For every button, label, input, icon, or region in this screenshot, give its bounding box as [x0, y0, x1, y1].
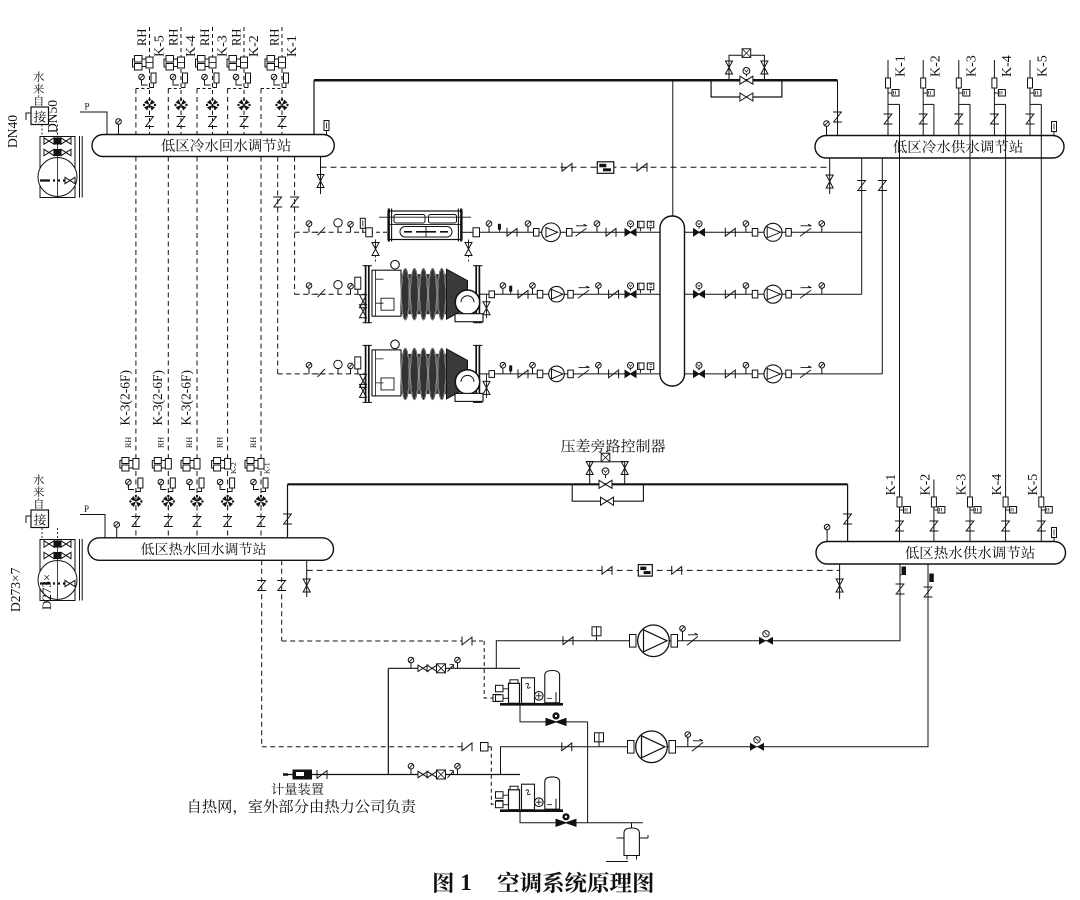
chiller bellows: [402, 274, 447, 314]
hot return header 低区热水回水调节站: [88, 538, 334, 561]
skid base: [500, 703, 563, 706]
secondary pump: [764, 365, 782, 383]
sensor box K-5: [1030, 92, 1034, 94]
svg-text:K-4: K-4: [990, 474, 1005, 496]
chiller left stub valves: [360, 374, 367, 387]
svg-text:RH: RH: [185, 437, 194, 448]
controller actuator M chilled: [743, 68, 750, 75]
label 自来水 vertical bottom: [35, 498, 42, 509]
feed gauge: [306, 362, 312, 371]
wire skid A bypass: [520, 704, 588, 722]
gauge: [596, 362, 602, 371]
tank side plate: [79, 539, 81, 601]
primary pump: [542, 223, 561, 242]
svg-text:K-5: K-5: [1036, 55, 1051, 77]
valve small right hot bypass: [621, 462, 628, 475]
feed gauge small: [348, 363, 354, 372]
union Z K-5: [145, 117, 154, 127]
bypass controller bracket hot: [590, 462, 625, 485]
flag sensor K-1: [886, 78, 891, 88]
skid pump block: [509, 683, 520, 703]
svg-text:K-3: K-3: [964, 55, 979, 77]
wire chiller row line: [480, 231, 862, 233]
chiller cone: [447, 269, 468, 319]
thermometer pair hot 4: [217, 479, 223, 488]
branch chilled supply K-2: [922, 60, 924, 136]
sensor box K-3: [959, 92, 963, 94]
wire tee to hot riser K-1: [888, 103, 900, 105]
butterfly valve M: [625, 283, 636, 298]
svg-text:RH: RH: [249, 437, 258, 448]
transmitters: [638, 363, 654, 373]
tank label box 接: [31, 510, 49, 528]
svg-text:RH: RH: [198, 29, 212, 46]
drain stub H4 bottom w/ valve: [839, 564, 841, 599]
skid circulation pump: [535, 692, 544, 701]
valves on A primary: [418, 665, 428, 671]
tank inlet dotted: [42, 528, 58, 539]
svg-text:RH: RH: [167, 29, 181, 46]
flag sensor K-4: [992, 78, 997, 88]
gauge B primary left: [408, 763, 414, 772]
riser hot return K line 5 (dashed): [260, 89, 262, 538]
svg-text:K-3(2-6F): K-3(2-6F): [150, 370, 165, 426]
svg-text:D273×: D273×: [39, 574, 54, 610]
feed slash valve: [316, 227, 326, 235]
union: [609, 290, 619, 299]
riser hot return K line 2 (dashed): [167, 89, 169, 538]
motor valve hot 2: [152, 458, 171, 472]
svg-text:K-5: K-5: [153, 35, 168, 57]
branch chilled return RH K-1: [281, 27, 283, 135]
air separator: [631, 823, 633, 828]
feed gauge small: [348, 283, 354, 292]
make-up water tank bottom: [40, 540, 75, 601]
pressure bypass loop chilled: [711, 80, 782, 97]
thermometer pair K-5: [139, 74, 145, 83]
skid motor boxes: [496, 792, 504, 799]
pump flange out: [568, 370, 574, 378]
chiller elbow: [455, 370, 479, 394]
svg-text:K-4: K-4: [184, 35, 199, 57]
chiller feed dashed line A (rows1-2): [294, 157, 296, 295]
gauge: [594, 221, 600, 230]
wire P line to H1: [80, 112, 107, 135]
motor valve K-4: [164, 56, 185, 71]
gauge on H3 top: [114, 522, 120, 531]
feed gauge small: [348, 222, 354, 231]
sensor box K-1: [888, 92, 892, 94]
pipe stub left of box: [26, 113, 31, 120]
riser hot supply K-5: [1040, 104, 1042, 541]
control valve K-1: [275, 98, 288, 110]
controller box chilled: [742, 49, 751, 58]
gauge: [500, 362, 506, 371]
skid control cabinet: [522, 784, 535, 810]
chiller body block: [372, 270, 401, 316]
skid pump block: [509, 790, 520, 810]
branch chilled return RH K-3: [212, 27, 214, 135]
svg-text:K-3(2-6F): K-3(2-6F): [179, 370, 194, 426]
control valve hot 2: [162, 495, 175, 507]
transmitters: [638, 221, 654, 231]
motor valve hot 1: [120, 458, 139, 472]
svg-text:RH: RH: [268, 29, 282, 46]
heat exchanger unit row1: [388, 211, 462, 240]
wire hot main right corner to H4: [847, 484, 849, 541]
discharge valve B: [750, 737, 764, 751]
pump flange in: [752, 290, 758, 298]
feed flag: [355, 357, 361, 369]
feed flag: [355, 277, 361, 289]
gauge: [525, 221, 531, 230]
skid expansion tank: [545, 671, 560, 703]
union Z K-3: [954, 114, 963, 124]
check pump B: [692, 742, 703, 751]
tank inlet pipe dotted: [42, 125, 58, 137]
chiller right drain: [479, 373, 494, 375]
gauge: [530, 283, 536, 292]
control valve hot 3: [190, 495, 203, 507]
motor valve hot 5: [245, 458, 264, 472]
pump flange in: [752, 229, 758, 237]
svg-text:K-2: K-2: [929, 55, 944, 77]
secondary pump: [764, 223, 782, 241]
gauge: [596, 283, 602, 292]
control device box hot dashed: [638, 565, 652, 577]
control valve K-5: [143, 98, 156, 110]
chiller left stub valves: [360, 295, 367, 308]
union Z hot 1: [131, 517, 140, 527]
branch chilled return RH K-2: [243, 27, 245, 135]
label 计量装置: [271, 783, 283, 795]
gauge: [486, 221, 492, 230]
pump body: [638, 625, 670, 657]
union: [725, 369, 735, 378]
control valve K-3: [206, 98, 219, 110]
gauge A primary left: [408, 657, 414, 666]
union: [518, 369, 528, 378]
valve bypass loop chilled: [740, 93, 753, 101]
row1 outlet box: [462, 231, 473, 233]
control device box on dashed main: [597, 162, 614, 174]
valve bypass loop hot: [601, 497, 614, 505]
chiller motor circle: [391, 260, 400, 269]
right flange box: [489, 291, 495, 298]
riser hot supply K-1: [899, 104, 901, 541]
union on hot dashed main: [602, 566, 612, 575]
pump flange in: [537, 370, 543, 378]
metering device 计量装置: [293, 770, 313, 780]
control valve hot 4: [221, 495, 234, 507]
drain stub H2 side w/ valve: [829, 158, 831, 194]
wire tee to hot riser K-5: [1030, 103, 1041, 105]
thermometer pair hot 2: [158, 479, 164, 488]
svg-text:P: P: [84, 102, 89, 112]
flag below H4 on pump B riser: [929, 574, 934, 583]
svg-text:K-4: K-4: [1000, 55, 1015, 77]
wire dashed hot return to circuit A: [281, 560, 283, 641]
thermometer pair K-2: [233, 74, 239, 83]
skid base: [500, 809, 563, 812]
union Z K-4: [177, 117, 186, 127]
wire hot main left corner to H3: [287, 484, 289, 538]
check valve: [578, 366, 590, 378]
check valve: [800, 286, 812, 298]
wire metering line: [288, 774, 520, 776]
wire chiller row line: [495, 373, 883, 375]
chilled return header 低区冷水回水调节站: [92, 135, 334, 157]
svg-text:DN40: DN40: [5, 115, 20, 148]
feed gauge large: [335, 220, 341, 229]
skid control cabinet: [522, 678, 535, 704]
motor valve K-5: [133, 56, 154, 71]
flag sensor K-3: [956, 78, 961, 88]
sensor tick: [498, 224, 501, 230]
svg-text:K-5: K-5: [1026, 474, 1041, 496]
pump flange in: [630, 635, 637, 648]
union Z hot 5: [257, 517, 266, 527]
secondary pump: [764, 285, 782, 303]
svg-text:RH: RH: [230, 29, 244, 46]
valve on A bypass: [546, 712, 566, 725]
union Z K-4: [990, 114, 999, 124]
collector vessel: [660, 216, 685, 386]
wire pump A suction: [496, 641, 629, 669]
chiller motor circle: [391, 340, 400, 349]
wire pump A discharge to H4: [649, 564, 900, 641]
thermometer pair hot 1: [126, 479, 132, 488]
caption 图1 空调系统原理图: [434, 872, 453, 893]
check valve: [800, 224, 812, 236]
check valve: [800, 366, 812, 378]
union Z K-5: [1026, 114, 1035, 124]
chiller cone: [447, 349, 468, 399]
drain stub H1 bottom w/ valve: [320, 157, 322, 195]
check pump A: [687, 636, 698, 645]
svg-text:K-3: K-3: [216, 35, 231, 57]
svg-text:K-1: K-1: [894, 55, 909, 77]
union: [606, 228, 616, 237]
svg-text:RH: RH: [124, 437, 133, 448]
T sensor pump B: [595, 733, 604, 747]
pump flange out: [671, 635, 678, 648]
bypass controller bracket chilled: [729, 55, 764, 80]
wire chilled supply riser row3: [881, 158, 883, 374]
valve small left chilled bypass: [726, 61, 733, 74]
wire dashed hot return to circuit B: [261, 560, 263, 747]
tank valve row 1: [44, 140, 71, 142]
pressure bypass loop hot: [572, 484, 643, 501]
row1 flag sensor: [360, 218, 365, 232]
union Z K-1: [884, 114, 893, 124]
svg-text:RH: RH: [216, 437, 225, 448]
control valve K-4: [174, 98, 187, 110]
pump flange in: [752, 370, 758, 378]
thermometer pair K-1: [271, 74, 277, 83]
control valve K-2: [237, 98, 250, 110]
butterfly valve M: [694, 221, 705, 236]
branch chilled supply K-1: [887, 60, 889, 136]
union Z hot 2: [164, 517, 173, 527]
gauge: [743, 283, 749, 292]
tank valve row 2: [44, 555, 71, 557]
wire primary hot supply riser: [387, 668, 389, 774]
branch chilled supply K-3: [958, 60, 960, 136]
union Z on H2 feed: [833, 112, 842, 122]
union: [609, 369, 619, 378]
svg-text:RH: RH: [135, 29, 149, 46]
skid motor boxes: [496, 685, 504, 692]
union pump B suction: [562, 742, 572, 751]
wire H1 right end riser: [313, 80, 315, 134]
union: [725, 228, 735, 237]
gauge: [530, 362, 536, 371]
riser hot return K line 3 (dashed): [196, 89, 198, 538]
chilled supply header 低区冷水供水调节站 (drawn under risers): [815, 136, 1064, 159]
label 自热网室外部分由热力公司负责: [190, 799, 200, 813]
valve small left hot bypass: [586, 462, 593, 475]
flag below H4 on pump A riser: [902, 567, 907, 576]
butterfly valve M: [625, 362, 636, 377]
wire tee to hot riser K-3: [959, 103, 970, 105]
union: [507, 228, 517, 237]
tank valve row 1: [44, 543, 71, 545]
valve on B bypass: [556, 813, 576, 826]
pump flange out: [786, 229, 792, 237]
controller actuator M hot: [602, 468, 609, 475]
control valve hot 5: [254, 495, 267, 507]
feed gauge large: [335, 282, 341, 291]
wire row1 dashed segment: [362, 231, 388, 233]
svg-text:K-2: K-2: [247, 35, 262, 57]
butterfly valve M: [694, 362, 705, 377]
wire chilled supply riser rows1-2: [861, 158, 863, 294]
label 自来水 vertical: [35, 95, 42, 106]
gauge on H4 top: [824, 524, 830, 533]
wire tee to hot riser K-4: [994, 103, 1005, 105]
sensor box K-2: [923, 92, 927, 94]
pump flange out: [786, 290, 792, 298]
chiller elbow: [455, 290, 479, 314]
flag sensor H2 right end: [1052, 122, 1057, 136]
svg-text:D273×7: D273×7: [8, 567, 23, 612]
wire dashed chilled return main: [321, 166, 830, 168]
gauge pump B out: [685, 732, 691, 741]
chiller end plates: [365, 265, 367, 323]
tank valve row 2: [44, 152, 71, 154]
primary pump: [549, 366, 565, 382]
check valve: [576, 224, 588, 236]
thermometer pair hot 5: [251, 479, 257, 488]
pump flange in: [628, 741, 635, 754]
riser hot return K line 1 (dashed): [135, 89, 137, 538]
union Z K-2: [919, 114, 928, 124]
union on dashed main: [562, 163, 572, 172]
wire chilled supply main top: [314, 79, 838, 82]
motor valve K-3: [196, 56, 217, 71]
valve bypass main hot: [599, 480, 612, 488]
pipe stub left of box bottom: [26, 516, 31, 523]
union Z K-2: [240, 117, 249, 127]
transmitters: [638, 283, 654, 293]
branch chilled supply K-4: [993, 60, 995, 136]
svg-text:DN50: DN50: [45, 100, 60, 133]
sensor box K-4: [994, 92, 998, 94]
circuit B dashed return into skid: [462, 742, 472, 751]
wire dashed hot return main: [307, 569, 840, 571]
pump flange out: [786, 370, 792, 378]
row1 inlet box: [366, 228, 373, 237]
svg-text:1: 1: [460, 870, 472, 895]
wire tee to hot riser K-2: [923, 103, 934, 105]
branch chilled return RH K-5: [149, 27, 151, 135]
svg-text:K-3: K-3: [955, 474, 970, 496]
valves on B primary: [418, 771, 428, 777]
valve small right chilled bypass: [761, 61, 768, 74]
sensor tick: [509, 365, 512, 371]
gauge: [819, 283, 825, 292]
skid inlet pipe: [555, 799, 557, 810]
chiller right drain: [479, 293, 494, 295]
branch chilled supply K-5: [1029, 60, 1031, 136]
branch chilled return RH K-4: [180, 27, 182, 135]
gauge: [819, 362, 825, 371]
svg-text:P: P: [84, 504, 89, 514]
svg-text:K-2: K-2: [918, 474, 933, 496]
flag sensor K-2: [921, 78, 926, 88]
gauge: [743, 362, 749, 371]
feed slash valve: [316, 369, 326, 377]
union pump A suction: [563, 636, 573, 645]
wire pump B suction: [501, 747, 628, 775]
gauge on H2 top: [824, 121, 830, 130]
wire hot supply main: [288, 483, 848, 485]
riser hot supply K-4: [1005, 104, 1007, 541]
pump flange in: [534, 229, 540, 237]
feed gauge: [306, 283, 312, 292]
chiller bellows: [402, 354, 447, 394]
skid circulation pump: [535, 798, 544, 807]
union Z hot 4: [223, 517, 232, 527]
motor valve hot 4: [212, 458, 231, 472]
drain stub H3 bottom w/ valve: [306, 560, 308, 597]
T sensor pump A: [592, 627, 601, 641]
tank side plate: [79, 136, 81, 198]
motor valve K-1: [265, 56, 286, 71]
gauge on H1 top: [116, 119, 122, 128]
union on dashed main 2: [637, 163, 647, 172]
motor valve hot 3: [181, 458, 200, 472]
union Z hot 3: [193, 517, 202, 527]
valve bypass main chilled: [740, 76, 753, 84]
skid expansion tank: [545, 777, 560, 809]
wire corner down to H2: [837, 80, 839, 135]
feed slash valve: [316, 289, 326, 297]
wire A bypass to B suction: [587, 722, 589, 823]
wire P line to H3: [80, 515, 105, 538]
row1 drains: [375, 240, 377, 251]
wire pump B discharge to H4: [647, 564, 928, 747]
pump flange out: [567, 229, 573, 237]
control valve hot 1: [129, 495, 142, 507]
pump flange out: [669, 741, 676, 754]
wire riser to collector top: [672, 80, 674, 216]
chiller end plates: [365, 345, 367, 403]
thermometer pair K-3: [202, 74, 208, 83]
circuit A dashed return into skid: [462, 637, 472, 646]
right flange box: [489, 371, 495, 378]
